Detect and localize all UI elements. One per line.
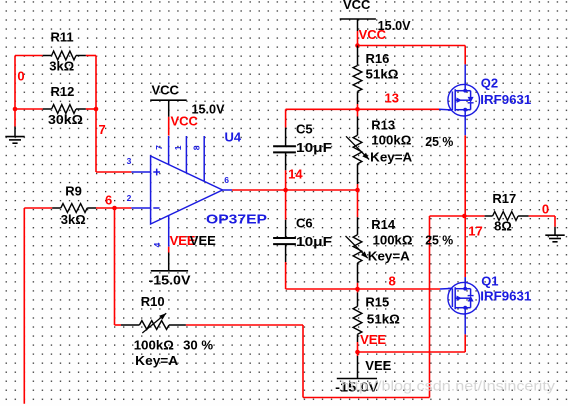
svg-text:6: 6 — [224, 175, 229, 185]
svg-text:http://blog.csdn.net/Insinceri: http://blog.csdn.net/Insincerity — [341, 379, 555, 394]
svg-text:2: 2 — [127, 193, 132, 203]
svg-text:IRF9631: IRF9631 — [480, 289, 531, 304]
svg-text:8: 8 — [192, 145, 202, 150]
svg-text:OP37EP: OP37EP — [206, 212, 267, 227]
svg-text:R15: R15 — [365, 295, 389, 310]
svg-text:IRF9631: IRF9631 — [480, 92, 531, 107]
svg-text:R10: R10 — [141, 294, 165, 309]
svg-text:14: 14 — [288, 167, 303, 182]
svg-text:30kΩ: 30kΩ — [48, 112, 83, 127]
svg-text:VEE: VEE — [360, 332, 386, 347]
svg-text:Q2: Q2 — [481, 76, 498, 91]
svg-text:25 %: 25 % — [425, 232, 453, 247]
svg-text:3kΩ: 3kΩ — [49, 59, 74, 74]
svg-text:6: 6 — [105, 193, 112, 208]
svg-text:R12: R12 — [51, 84, 75, 99]
svg-text:17: 17 — [468, 224, 482, 239]
svg-text:U4: U4 — [225, 130, 242, 145]
svg-text:0: 0 — [542, 201, 549, 216]
svg-text:30 %: 30 % — [183, 338, 213, 353]
svg-text:Key=A: Key=A — [135, 353, 179, 368]
svg-text:R16: R16 — [366, 51, 390, 66]
svg-text:100kΩ: 100kΩ — [371, 133, 411, 148]
svg-text:Q1: Q1 — [481, 274, 498, 289]
svg-text:100kΩ: 100kΩ — [373, 232, 413, 247]
svg-text:R11: R11 — [51, 30, 74, 45]
svg-text:R14: R14 — [371, 217, 396, 232]
svg-text:7: 7 — [154, 145, 164, 150]
svg-text:8Ω: 8Ω — [494, 219, 512, 234]
svg-text:100kΩ: 100kΩ — [134, 338, 174, 353]
svg-text:VCC: VCC — [171, 114, 199, 129]
svg-text:4: 4 — [152, 242, 162, 247]
svg-text:Key=A: Key=A — [370, 149, 413, 164]
svg-text:R17: R17 — [492, 191, 516, 206]
svg-text:C5: C5 — [296, 122, 313, 137]
svg-text:C6: C6 — [296, 216, 313, 231]
svg-text:51kΩ: 51kΩ — [366, 67, 399, 82]
svg-text:8: 8 — [389, 273, 396, 288]
svg-text:51kΩ: 51kΩ — [367, 312, 400, 327]
svg-text:13: 13 — [385, 91, 399, 106]
svg-text:VCC: VCC — [343, 0, 371, 12]
svg-text:0: 0 — [17, 69, 24, 84]
svg-text:VEE: VEE — [190, 233, 216, 248]
svg-text:R13: R13 — [371, 117, 395, 132]
svg-text:10μF: 10μF — [296, 140, 332, 155]
svg-text:7: 7 — [99, 122, 106, 137]
svg-text:VCC: VCC — [152, 83, 180, 98]
svg-text:R9: R9 — [65, 184, 82, 199]
svg-text:25 %: 25 % — [425, 134, 453, 149]
svg-text:VEE: VEE — [365, 358, 391, 373]
svg-text:VCC: VCC — [359, 27, 387, 42]
svg-text:-15.0V: -15.0V — [149, 272, 191, 287]
svg-text:10μF: 10μF — [296, 234, 332, 249]
svg-text:3: 3 — [127, 156, 132, 166]
svg-text:Key=A: Key=A — [368, 249, 411, 264]
svg-text:1: 1 — [173, 145, 183, 150]
svg-text:3kΩ: 3kΩ — [61, 212, 86, 227]
